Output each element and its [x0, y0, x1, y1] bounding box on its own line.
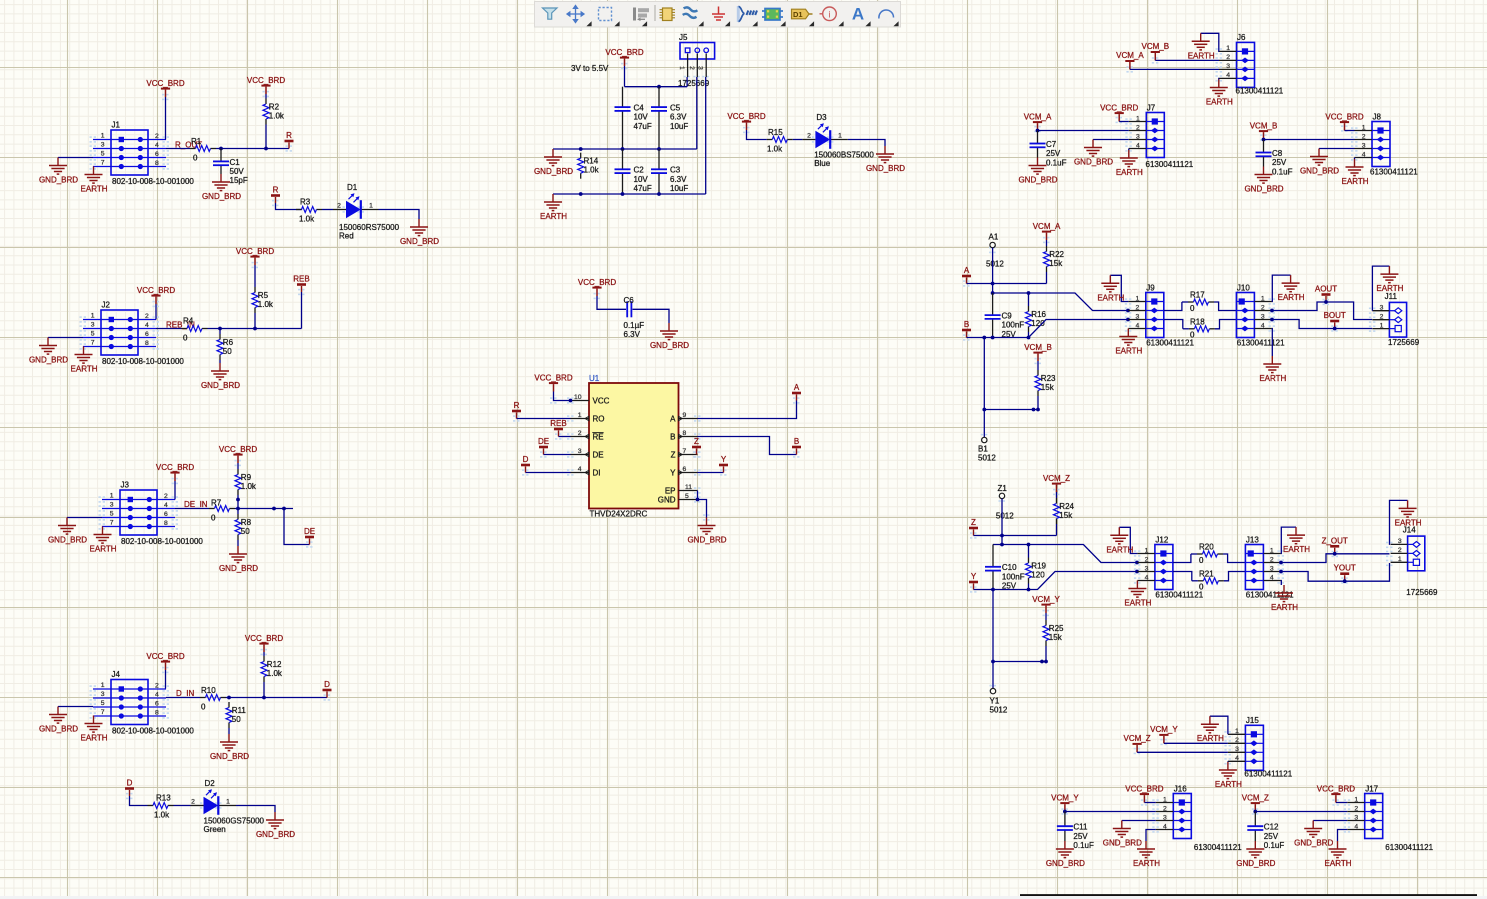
junction	[991, 291, 995, 295]
wire	[265, 125, 267, 149]
svg-text:8: 8	[164, 520, 168, 527]
svg-text:61300411121: 61300411121	[1244, 770, 1292, 779]
wire	[1223, 554, 1245, 563]
net flag R	[512, 401, 521, 419]
ground GND_BRD	[1300, 149, 1339, 176]
svg-text:R24: R24	[1059, 502, 1074, 511]
wire	[1037, 396, 1039, 410]
test point A1	[990, 242, 995, 247]
wire	[165, 670, 167, 689]
svg-text:2: 2	[1226, 54, 1230, 61]
wire	[1119, 121, 1129, 123]
svg-text:4: 4	[155, 691, 159, 698]
svg-text:3: 3	[110, 502, 114, 509]
svg-text:DE: DE	[304, 527, 315, 536]
svg-text:C7: C7	[1046, 140, 1057, 149]
svg-text:J9: J9	[1146, 283, 1155, 292]
ground GND_BRD	[1046, 841, 1085, 868]
junction	[579, 147, 583, 151]
wire	[1045, 646, 1047, 662]
wire	[379, 210, 420, 220]
connector J15	[1228, 716, 1264, 770]
svg-text:EARTH: EARTH	[1116, 168, 1143, 177]
power flag VCC_BRD	[534, 373, 572, 391]
wire	[58, 706, 93, 708]
svg-text:R22: R22	[1049, 250, 1064, 259]
svg-text:61300411121: 61300411121	[1146, 160, 1194, 169]
wire	[1319, 148, 1355, 150]
svg-text:VCC_BRD: VCC_BRD	[146, 79, 184, 88]
svg-text:J7: J7	[1147, 103, 1156, 112]
junction	[236, 507, 240, 511]
svg-text:REB: REB	[293, 275, 309, 284]
connector J16	[1156, 784, 1192, 838]
svg-text:GND_BRD: GND_BRD	[210, 752, 249, 761]
svg-text:i: i	[828, 9, 830, 20]
wire	[166, 148, 190, 150]
resistor R16	[1026, 306, 1047, 332]
ground EARTH	[1271, 585, 1298, 612]
svg-text:GND_BRD: GND_BRD	[29, 356, 68, 365]
svg-text:0.1uF: 0.1uF	[1272, 167, 1293, 176]
wire	[208, 328, 302, 330]
svg-text:25V: 25V	[1272, 158, 1287, 167]
net flag R	[285, 131, 294, 149]
net flag DE	[538, 437, 549, 455]
svg-text:3V to 5.5V: 3V to 5.5V	[571, 64, 609, 73]
wire	[625, 86, 688, 88]
svg-text:J16: J16	[1174, 784, 1187, 793]
svg-text:AOUT: AOUT	[1315, 285, 1337, 294]
wire	[1128, 149, 1130, 151]
svg-text:J6: J6	[1237, 33, 1246, 42]
ground EARTH	[1376, 266, 1403, 293]
net flag BOUT	[1324, 311, 1346, 329]
svg-text:D_IN: D_IN	[176, 689, 194, 698]
ground EARTH	[1215, 762, 1242, 789]
svg-text:5012: 5012	[990, 706, 1008, 715]
svg-text:R11: R11	[232, 706, 247, 715]
wire	[1336, 802, 1347, 804]
wire	[993, 293, 1129, 311]
svg-text:3: 3	[697, 66, 704, 70]
resistor R13	[148, 794, 174, 820]
wire	[237, 509, 239, 515]
svg-text:1: 1	[226, 798, 230, 805]
svg-text:J12: J12	[1155, 535, 1168, 544]
junction	[1333, 552, 1337, 556]
net flag YOUT	[1334, 564, 1356, 582]
svg-text:J3: J3	[121, 481, 130, 490]
svg-text:1.0k: 1.0k	[154, 811, 170, 820]
svg-text:R23: R23	[1041, 374, 1056, 383]
svg-text:A: A	[852, 5, 864, 24]
net flag REB	[550, 419, 566, 437]
wire	[1173, 572, 1192, 581]
svg-text:3: 3	[1261, 313, 1265, 320]
svg-text:1.0k: 1.0k	[258, 300, 274, 309]
resistor R24	[1054, 498, 1075, 524]
toolbar	[535, 2, 901, 28]
svg-text:GND_BRD: GND_BRD	[201, 381, 240, 390]
power flag VCM_Z	[1124, 734, 1151, 752]
wire	[1110, 275, 1128, 301]
svg-text:3: 3	[1354, 814, 1358, 821]
wire	[219, 329, 221, 335]
ground EARTH	[1106, 527, 1133, 554]
junction	[569, 399, 573, 403]
wire	[237, 463, 239, 469]
svg-text:3: 3	[1398, 538, 1402, 545]
junction	[236, 498, 240, 502]
wire	[1192, 580, 1198, 582]
svg-text:5: 5	[101, 151, 105, 158]
svg-text:EARTH: EARTH	[1206, 98, 1233, 107]
svg-text:1: 1	[369, 202, 373, 209]
svg-text:VCM_B: VCM_B	[1024, 343, 1052, 352]
svg-text:6: 6	[145, 331, 149, 338]
svg-text:15k: 15k	[1059, 511, 1073, 520]
svg-text:8: 8	[155, 709, 159, 716]
svg-text:GND_BRD: GND_BRD	[650, 341, 689, 350]
svg-text:0: 0	[193, 154, 198, 163]
wire	[58, 157, 93, 159]
svg-text:U1: U1	[589, 374, 600, 383]
test point Y1	[990, 688, 995, 693]
svg-text:0: 0	[1190, 331, 1195, 340]
svg-text:B: B	[964, 320, 969, 329]
svg-text:1: 1	[1398, 556, 1402, 563]
svg-text:EARTH: EARTH	[1133, 859, 1160, 868]
svg-text:EARTH: EARTH	[1188, 51, 1215, 60]
wire	[747, 130, 767, 140]
svg-text:Z_OUT: Z_OUT	[1322, 536, 1348, 545]
wire	[216, 148, 289, 150]
svg-text:0: 0	[201, 703, 206, 712]
ground GND_BRD	[1074, 140, 1113, 167]
resistor R19	[1026, 558, 1047, 584]
svg-text:C5: C5	[670, 104, 681, 113]
svg-text:R17: R17	[1190, 290, 1205, 299]
svg-text:EARTH: EARTH	[1124, 599, 1151, 608]
svg-text:VCC_BRD: VCC_BRD	[219, 445, 257, 454]
svg-text:Y1: Y1	[990, 697, 1000, 706]
ground EARTH	[1188, 33, 1215, 60]
power flag VCM_A	[1024, 112, 1052, 130]
svg-text:R12: R12	[267, 660, 282, 669]
ground GND_BRD	[202, 174, 241, 201]
svg-text:1: 1	[101, 133, 105, 140]
svg-text:GND_BRD: GND_BRD	[219, 564, 258, 573]
power flag VCC_BRD	[236, 247, 274, 265]
toolbar icon text	[852, 5, 864, 24]
svg-text:5: 5	[91, 331, 95, 338]
svg-text:REB: REB	[550, 419, 566, 428]
resistor R14	[578, 153, 600, 179]
svg-text:R18: R18	[1190, 317, 1205, 326]
wire	[1227, 760, 1229, 763]
svg-text:6: 6	[164, 511, 168, 518]
svg-text:2: 2	[145, 313, 149, 320]
power flag VCC_BRD	[1325, 112, 1363, 130]
svg-text:VCC: VCC	[593, 396, 610, 405]
svg-text:C11: C11	[1073, 823, 1088, 832]
svg-text:4: 4	[145, 322, 149, 329]
ground EARTH	[1325, 841, 1352, 868]
svg-text:2: 2	[337, 202, 341, 209]
svg-text:EARTH: EARTH	[1115, 347, 1142, 356]
wire	[1210, 716, 1228, 734]
svg-text:1.0k: 1.0k	[269, 111, 285, 120]
svg-text:2: 2	[1354, 805, 1358, 812]
sheet border line	[1020, 894, 1477, 896]
svg-text:GND_BRD: GND_BRD	[866, 164, 905, 173]
ground GND_BRD	[201, 363, 240, 390]
svg-text:A: A	[670, 414, 676, 423]
svg-text:VCM_A: VCM_A	[1033, 222, 1061, 231]
junction	[282, 507, 286, 511]
svg-text:EARTH: EARTH	[1215, 780, 1242, 789]
toolbar icon designator	[792, 9, 813, 19]
wire	[263, 682, 265, 698]
svg-text:VCC_BRD: VCC_BRD	[245, 634, 283, 643]
junction	[991, 588, 995, 592]
junction	[1027, 543, 1031, 547]
power flag VCC_BRD	[247, 76, 285, 94]
wire	[1045, 613, 1047, 620]
svg-text:0: 0	[183, 334, 188, 343]
wire	[1272, 320, 1372, 329]
svg-text:1.0k: 1.0k	[767, 145, 783, 154]
wire	[1056, 492, 1058, 498]
svg-text:4: 4	[1235, 755, 1239, 762]
svg-text:8: 8	[683, 430, 687, 437]
svg-text:R14: R14	[584, 157, 599, 166]
svg-text:B1: B1	[978, 445, 988, 454]
wire	[544, 454, 571, 456]
svg-text:R2: R2	[269, 102, 280, 111]
svg-text:D1: D1	[347, 183, 358, 192]
net flag R	[271, 186, 280, 204]
wire	[174, 805, 191, 807]
ground EARTH	[1124, 581, 1151, 608]
svg-text:3: 3	[1235, 746, 1239, 753]
junction	[1063, 810, 1067, 814]
svg-text:Z: Z	[694, 437, 699, 446]
connector J2	[83, 301, 184, 367]
svg-text:0: 0	[1199, 556, 1204, 565]
LED D3	[802, 113, 848, 149]
svg-text:802-10-008-10-001000: 802-10-008-10-001000	[112, 727, 194, 736]
wire	[263, 652, 265, 656]
power flag VCM_Y	[1032, 595, 1060, 613]
junction	[1000, 534, 1004, 538]
svg-text:VCC_BRD: VCC_BRD	[146, 652, 184, 661]
resistor R9	[235, 469, 257, 495]
wire	[1130, 68, 1219, 70]
svg-text:6: 6	[683, 466, 687, 473]
connector J8	[1355, 112, 1391, 166]
wire	[1093, 139, 1129, 141]
svg-text:61300411121: 61300411121	[1246, 591, 1294, 600]
wire	[67, 517, 102, 519]
junction	[982, 336, 986, 340]
junction	[1253, 810, 1257, 814]
capacitor C3	[651, 149, 688, 194]
resistor R20	[1197, 542, 1223, 565]
ground GND_BRD	[866, 146, 905, 173]
junction	[1044, 660, 1048, 664]
svg-text:4: 4	[1145, 574, 1149, 581]
svg-text:EARTH: EARTH	[1325, 859, 1352, 868]
toolbar icon part	[660, 8, 676, 21]
ground EARTH	[540, 194, 567, 221]
svg-text:1725669: 1725669	[1388, 338, 1420, 347]
svg-text:2: 2	[1163, 805, 1167, 812]
svg-text:3: 3	[91, 322, 95, 329]
ground GND_BRD	[400, 219, 439, 246]
svg-text:61300411121: 61300411121	[1155, 591, 1203, 600]
svg-text:5012: 5012	[996, 512, 1014, 521]
connector J5	[678, 33, 715, 77]
svg-text:5012: 5012	[986, 260, 1004, 269]
wire	[553, 193, 706, 195]
svg-text:EARTH: EARTH	[1278, 293, 1305, 302]
svg-text:4: 4	[1136, 142, 1140, 149]
svg-text:J17: J17	[1365, 784, 1378, 793]
junction	[253, 327, 257, 331]
wire	[1046, 272, 1048, 284]
svg-text:C12: C12	[1264, 823, 1279, 832]
wire	[698, 401, 797, 419]
svg-text:1: 1	[1226, 45, 1230, 52]
svg-text:GND_BRD: GND_BRD	[202, 192, 241, 201]
ground GND_BRD	[219, 546, 258, 573]
wire	[1372, 266, 1389, 311]
svg-text:VCM_Z: VCM_Z	[1124, 734, 1151, 743]
resistor R3	[296, 198, 322, 224]
svg-text:VCM_B: VCM_B	[1250, 121, 1278, 130]
connector J13	[1245, 535, 1281, 589]
svg-text:VCC_BRD: VCC_BRD	[1325, 112, 1363, 121]
ground GND_BRD	[39, 707, 78, 734]
wire	[1338, 830, 1348, 842]
wire	[301, 292, 303, 329]
resistor R22	[1044, 246, 1065, 272]
svg-text:2: 2	[1398, 547, 1402, 554]
svg-text:11: 11	[685, 484, 692, 491]
resistor R18	[1189, 317, 1215, 339]
svg-text:3: 3	[1380, 305, 1384, 312]
junction	[696, 498, 700, 502]
svg-text:7: 7	[101, 160, 105, 167]
svg-text:A1: A1	[989, 233, 999, 242]
svg-text:D2: D2	[205, 779, 216, 788]
svg-text:15k: 15k	[1041, 383, 1055, 392]
svg-text:1: 1	[101, 682, 105, 689]
svg-text:Red: Red	[339, 232, 354, 241]
ground GND_BRD	[210, 734, 249, 761]
power flag VCM_B	[1024, 343, 1052, 361]
toolbar icon align	[633, 8, 649, 22]
svg-text:15pF: 15pF	[230, 176, 248, 185]
svg-text:VCC_BRD: VCC_BRD	[137, 286, 175, 295]
net flag DE	[304, 527, 315, 545]
toolbar icon move	[567, 6, 584, 23]
svg-text:100nF: 100nF	[1002, 572, 1025, 581]
power flag VCC_BRD	[156, 463, 194, 481]
LED D2	[191, 779, 237, 815]
toolbar icon power port	[712, 7, 725, 21]
connector J17	[1347, 784, 1383, 838]
svg-text:4: 4	[1261, 322, 1265, 329]
svg-text:8: 8	[145, 340, 149, 347]
svg-text:2: 2	[155, 133, 159, 140]
wire	[992, 248, 994, 293]
svg-text:R20: R20	[1199, 542, 1214, 551]
svg-text:4: 4	[1163, 823, 1167, 830]
junction	[991, 282, 995, 286]
svg-text:47uF: 47uF	[634, 122, 652, 131]
svg-text:D: D	[127, 779, 133, 788]
ground EARTH	[81, 167, 108, 194]
resistor R15	[767, 128, 793, 154]
wire	[226, 697, 327, 699]
net flag Y	[969, 572, 978, 590]
ground EARTH	[1133, 841, 1160, 868]
ground EARTH	[1097, 275, 1124, 302]
wire	[633, 309, 670, 323]
wire	[1182, 301, 1188, 303]
wire	[1028, 545, 1030, 558]
junction	[1032, 408, 1036, 412]
wire	[983, 338, 985, 438]
svg-text:2: 2	[1261, 304, 1265, 311]
wire	[705, 77, 707, 194]
svg-text:Z: Z	[971, 518, 976, 527]
ground EARTH	[1206, 80, 1233, 107]
junction	[1270, 318, 1274, 322]
svg-text:3: 3	[1270, 565, 1274, 572]
svg-text:6.3V: 6.3V	[670, 175, 687, 184]
junction	[657, 192, 661, 196]
junction	[991, 660, 995, 664]
junction	[262, 696, 266, 700]
net flag B	[792, 437, 801, 455]
svg-text:R6: R6	[223, 338, 234, 347]
junction	[621, 147, 625, 151]
svg-text:R21: R21	[1199, 569, 1214, 578]
resistor R23	[1035, 370, 1056, 396]
svg-text:1.0k: 1.0k	[584, 166, 600, 175]
power flag VCC_BRD	[219, 445, 257, 463]
svg-text:2: 2	[191, 798, 195, 805]
svg-text:GND_BRD: GND_BRD	[39, 725, 78, 734]
svg-text:R10: R10	[201, 686, 216, 695]
svg-text:VCC_BRD: VCC_BRD	[1100, 103, 1138, 112]
svg-text:4: 4	[155, 142, 159, 149]
svg-text:6.3V: 6.3V	[624, 330, 641, 339]
wire	[1201, 33, 1219, 51]
wire	[1119, 527, 1137, 553]
wire	[155, 304, 157, 320]
junction	[1270, 309, 1274, 313]
svg-text:VCM_A: VCM_A	[1116, 51, 1144, 60]
svg-text:EARTH: EARTH	[1197, 734, 1224, 743]
svg-text:Z: Z	[671, 450, 676, 459]
connector J11	[1372, 292, 1406, 337]
svg-text:0.1uF: 0.1uF	[1073, 841, 1094, 850]
